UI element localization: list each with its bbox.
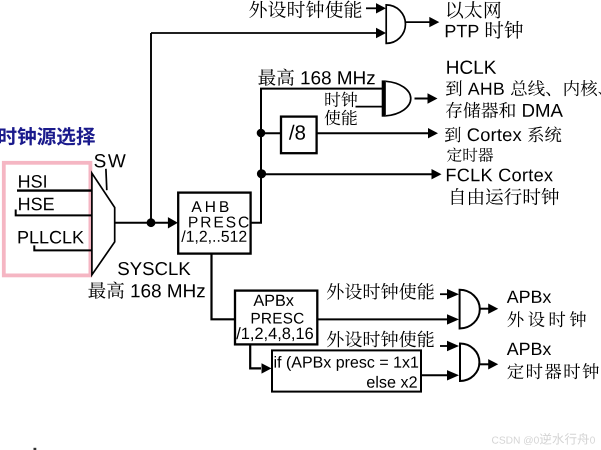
node J2 on riser bbox=[257, 169, 266, 178]
label PRESC bbox=[189, 217, 249, 228]
label 存储器和 DMA bbox=[446, 102, 563, 118]
label 外设时钟使能 (APBx periph) bbox=[327, 283, 434, 300]
divider /8 box bbox=[281, 117, 317, 154]
wire SYSCLK branch to U1 bottom input bbox=[151, 32, 377, 34]
arrowhead into U1 top input bbox=[376, 3, 386, 13]
label AHB bbox=[191, 201, 228, 212]
label /1,2,4,8,16 bbox=[236, 327, 313, 341]
label 时钟源选择 (clock source selection) bbox=[0, 127, 95, 146]
wire enable stub to U4 bbox=[440, 345, 450, 347]
arrowhead U4 top input bbox=[447, 341, 459, 351]
label 最高 168 MHz (max 168 MHz) bbox=[258, 69, 374, 86]
label PRESC (box2) bbox=[252, 313, 304, 324]
mux SW (clock source multiplexer) bbox=[92, 173, 115, 275]
period dot bottom-left bbox=[34, 448, 37, 450]
arrowhead into if box bbox=[262, 363, 272, 373]
label APBx (box) bbox=[253, 295, 293, 306]
and-gate U4 (APBx timer clock) bbox=[460, 344, 479, 382]
label 到 Cortex 系统 bbox=[445, 126, 561, 142]
and-gate U1 (Ethernet PTP clock) bbox=[386, 5, 405, 44]
label HCLK bbox=[447, 61, 496, 75]
and-gate U3 (APBx peripheral clock) bbox=[460, 290, 480, 329]
prescaler AHB PRESC box bbox=[178, 193, 250, 254]
label APBx (timer) bbox=[507, 343, 551, 355]
arrowhead U3 top input bbox=[447, 289, 459, 299]
label 最高 168 MHz (2) bbox=[88, 282, 204, 299]
wire U1 output bbox=[406, 21, 430, 23]
label SW bbox=[95, 154, 126, 168]
label 使能 (enable) bbox=[325, 110, 357, 126]
arrowhead U3 bottom input bbox=[447, 314, 459, 324]
arrowhead to Cortex timer bbox=[428, 128, 438, 138]
wire PLLCLK bbox=[34, 245, 94, 250]
label PTP 时钟 (PTP clock) bbox=[446, 21, 523, 39]
wire clock-enable stub into U2 bbox=[356, 106, 383, 108]
arrowhead into AHB PRESC bbox=[168, 217, 178, 228]
wire ETH enable stub bbox=[366, 7, 377, 9]
label 外设时钟 (peripheral clock) bbox=[508, 311, 587, 327]
wire APBx PRESC output bbox=[317, 318, 450, 320]
arrowhead U2 output bbox=[428, 93, 438, 103]
wire APBx PRESC down to if box bbox=[250, 344, 261, 368]
arrowhead FCLK bbox=[432, 169, 442, 179]
wire riser to /8 box bbox=[261, 132, 280, 134]
wire enable stub to U3 bbox=[440, 293, 450, 295]
label SYSCLK bbox=[118, 262, 190, 275]
arrowhead U4 output bbox=[488, 359, 498, 369]
wire HSI bbox=[17, 189, 95, 191]
wire U3 output bbox=[480, 308, 489, 310]
arrowhead U1 output bbox=[429, 17, 439, 27]
prescaler APBx PRESC box bbox=[235, 291, 317, 345]
watermark CSDN @0逆水行舟0 bbox=[492, 433, 595, 445]
label if (APBx presc = 1x1 bbox=[275, 356, 419, 371]
wire if box output bbox=[421, 374, 450, 376]
label 自由运行时钟 (free running clock) bbox=[452, 188, 559, 205]
wire riser SYSCLK node to top bbox=[150, 33, 152, 223]
label PLLCLK bbox=[19, 231, 84, 244]
pink highlight box bbox=[4, 163, 91, 276]
wire U4 output bbox=[479, 363, 489, 365]
multiplier if-box bbox=[272, 350, 421, 391]
label /8 bbox=[289, 125, 305, 140]
label else x2 bbox=[367, 376, 417, 388]
wire AHB PRESC down to APBx PRESC bbox=[212, 254, 235, 320]
label 外设时钟使能 (APBx timer) bbox=[327, 331, 434, 348]
node SYSCLK junction bbox=[147, 218, 156, 227]
label 外设时钟使能 (peripheral clock enable, ETH) bbox=[249, 1, 361, 19]
label 定时器时钟 (timer clock) bbox=[507, 363, 598, 379]
arrowhead into U1 bottom input bbox=[376, 28, 386, 38]
arrowhead U4 bottom input bbox=[447, 370, 459, 380]
wire SW select line bbox=[105, 169, 108, 190]
label 到 AHB 总线、内核、 bbox=[446, 80, 601, 96]
label APBx (periph) bbox=[507, 291, 551, 303]
wire FCLK bbox=[261, 173, 432, 175]
label /1,2,..512 bbox=[181, 230, 246, 243]
arrowhead U3 output bbox=[488, 304, 498, 314]
wire AHB output riser bbox=[250, 89, 384, 223]
wire HSE bbox=[16, 210, 95, 216]
label HSI bbox=[19, 175, 46, 188]
label 时钟 (clock) bbox=[325, 92, 357, 108]
label 以太网 (Ethernet) bbox=[447, 1, 500, 19]
wire /8 output bbox=[317, 132, 428, 134]
label FCLK Cortex bbox=[447, 169, 553, 182]
wire U2 output bbox=[415, 98, 429, 100]
label HSE bbox=[19, 198, 54, 211]
node J1 on riser bbox=[257, 129, 266, 138]
and-gate U2 (HCLK gate) bbox=[382, 80, 411, 116]
label 定时器 (timer) bbox=[447, 148, 493, 163]
wire SYSCLK from mux bbox=[115, 222, 168, 224]
